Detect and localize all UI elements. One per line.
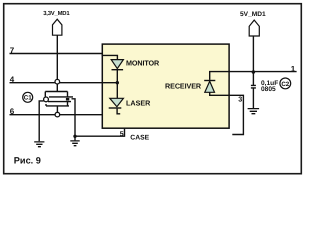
svg-text:5V_MD1: 5V_MD1 — [240, 11, 266, 18]
svg-text:С2: С2 — [281, 81, 289, 88]
svg-text:MONITOR: MONITOR — [126, 58, 160, 67]
svg-text:3,3V_MD1: 3,3V_MD1 — [43, 10, 70, 17]
svg-text:1: 1 — [291, 65, 296, 74]
svg-text:6: 6 — [10, 107, 15, 116]
svg-text:С1: С1 — [24, 95, 32, 102]
svg-text:5: 5 — [120, 131, 124, 138]
svg-text:LASER: LASER — [126, 98, 151, 107]
svg-text:4: 4 — [10, 75, 15, 84]
svg-text:3: 3 — [238, 94, 242, 103]
svg-text:7: 7 — [10, 46, 15, 55]
svg-text:0805: 0805 — [261, 86, 276, 93]
svg-text:Рис. 9: Рис. 9 — [14, 155, 41, 165]
svg-text:CASE: CASE — [130, 135, 149, 142]
svg-text:RECEIVER: RECEIVER — [165, 81, 202, 90]
